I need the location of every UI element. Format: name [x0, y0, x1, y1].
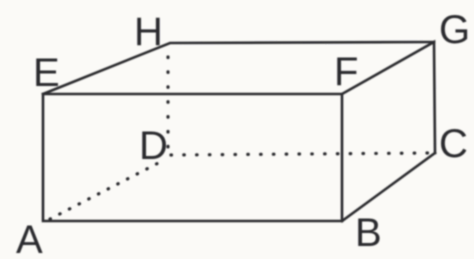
svg-text:F: F — [334, 50, 358, 94]
svg-text:C: C — [439, 122, 468, 166]
svg-text:D: D — [139, 124, 168, 168]
svg-text:B: B — [355, 211, 382, 255]
svg-text:E: E — [33, 51, 60, 95]
svg-text:G: G — [439, 8, 470, 52]
svg-text:H: H — [134, 10, 163, 54]
svg-text:A: A — [16, 218, 43, 259]
